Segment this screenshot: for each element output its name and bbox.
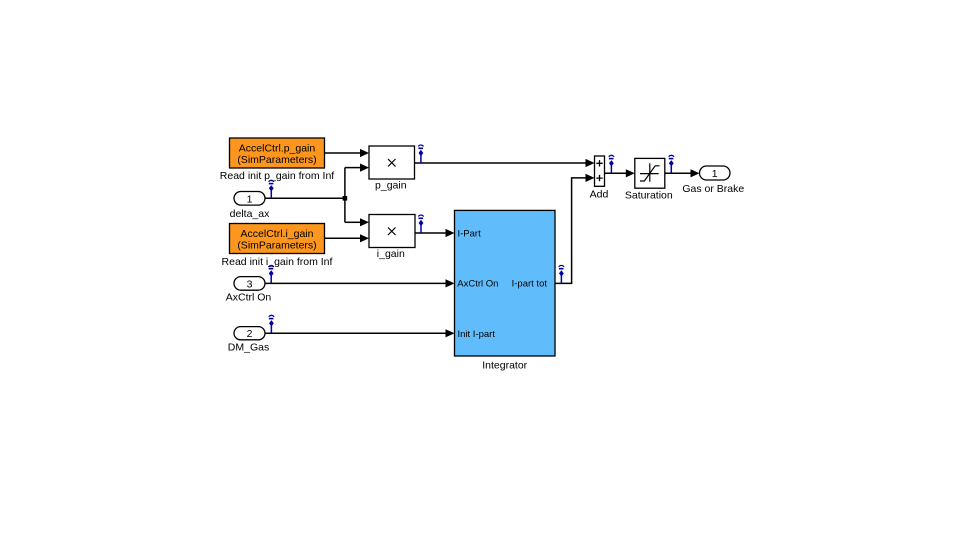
sum block Add: [590, 156, 609, 201]
svg-text:(SimParameters): (SimParameters): [237, 239, 316, 251]
svg-text:Saturation: Saturation: [625, 190, 673, 202]
inport 2 DM_Gas: [228, 327, 269, 354]
svg-text:Read init p_gain from Inf: Read init p_gain from Inf: [220, 170, 334, 182]
svg-text:3: 3: [247, 278, 253, 290]
wire AccelCtrl.i_gain to i_gain in2: [325, 234, 370, 242]
multiply block p_gain: [369, 146, 415, 191]
svg-text:I-part tot: I-part tot: [512, 279, 548, 290]
wire i_gain out to Integrator I-Part: [415, 229, 455, 237]
wire DM_Gas to Integrator Init I-part: [265, 329, 455, 337]
constant block Read init p_gain from Inf (AccelCtrl.p_gain): [220, 138, 334, 182]
svg-text:Integrator: Integrator: [482, 360, 527, 372]
logging badge on AxCtrl On wire: [269, 265, 274, 283]
wire Integrator out to Add in2: [555, 174, 595, 284]
outport 1 Gas or Brake: [682, 166, 744, 195]
inport 3 AxCtrl On: [226, 277, 272, 304]
saturation block Saturation: [625, 158, 673, 201]
svg-text:AccelCtrl.p_gain: AccelCtrl.p_gain: [239, 143, 316, 155]
subsystem block Integrator: [455, 210, 556, 371]
svg-text:I-Part: I-Part: [458, 228, 482, 239]
wire branch to p_gain in2: [345, 164, 369, 172]
svg-text:Add: Add: [590, 189, 609, 201]
junction dot delta_ax: [343, 196, 348, 201]
wire Saturation out to outport: [665, 169, 700, 177]
logging badge on delta_ax wire: [269, 180, 274, 198]
svg-text:AxCtrl On: AxCtrl On: [226, 292, 272, 304]
wire delta_ax to junction: [265, 197, 345, 199]
logging badge on Add out: [609, 155, 614, 173]
multiply block i_gain: [369, 215, 415, 261]
svg-text:Read init i_gain from Inf: Read init i_gain from Inf: [222, 256, 333, 268]
wire AccelCtrl.p_gain to p_gain in1: [325, 149, 370, 157]
svg-text:1: 1: [712, 168, 718, 180]
logging badge on Integrator out: [559, 265, 564, 283]
logging badge on Saturation out: [669, 155, 674, 173]
svg-text:2: 2: [247, 328, 253, 340]
wire p_gain out to Add in1: [415, 159, 595, 167]
svg-text:DM_Gas: DM_Gas: [228, 341, 269, 353]
wire Add out to Saturation: [605, 169, 635, 177]
svg-text:p_gain: p_gain: [375, 179, 407, 191]
svg-text:1: 1: [247, 193, 253, 205]
svg-text:AccelCtrl.i_gain: AccelCtrl.i_gain: [241, 228, 314, 240]
logging badge on i_gain out: [418, 215, 423, 233]
wire branch to i_gain in1: [345, 218, 369, 226]
svg-text:AxCtrl On: AxCtrl On: [457, 279, 498, 290]
logging badge on DM_Gas wire: [269, 315, 274, 333]
wire AxCtrl On to Integrator: [265, 279, 455, 287]
logging badge on p_gain out: [418, 145, 423, 163]
constant block Read init i_gain from Inf (AccelCtrl.i_gain): [222, 224, 333, 269]
svg-text:Init I-part: Init I-part: [458, 329, 496, 340]
svg-text:i_gain: i_gain: [377, 248, 405, 260]
svg-text:Gas or Brake: Gas or Brake: [682, 183, 744, 195]
svg-text:(SimParameters): (SimParameters): [237, 154, 316, 166]
svg-text:delta_ax: delta_ax: [230, 208, 270, 220]
wire junction vertical branch: [344, 168, 346, 223]
inport 1 delta_ax: [230, 192, 270, 221]
